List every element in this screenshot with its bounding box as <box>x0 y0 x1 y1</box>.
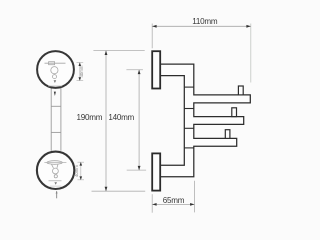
190mm dimension arrows <box>105 51 108 55</box>
post joint line 4 <box>184 147 194 149</box>
post joint line 2 <box>184 108 194 110</box>
top rosette (side view) <box>152 51 160 88</box>
mini dimension beside top circle <box>77 63 84 81</box>
bottom rosette lower faint line <box>50 185 61 187</box>
110mm dimension line <box>152 25 250 27</box>
bottom rosette inner disc ellipse <box>47 161 62 165</box>
140mm dimension line <box>138 70 140 170</box>
top rosette inner small circle <box>53 75 57 79</box>
post joint line 1 <box>184 86 194 88</box>
pivot pin arrow in bar <box>54 92 56 96</box>
65mm left extension tick <box>151 194 153 213</box>
140mm dimension arrows <box>138 70 141 74</box>
svg-text:40mm: 40mm <box>79 65 84 77</box>
top rosette bottom tick arrow <box>54 80 57 83</box>
svg-text:140mm: 140mm <box>108 113 134 122</box>
svg-text:65mm: 65mm <box>163 196 185 205</box>
bottom rosette funnel neck <box>52 164 59 168</box>
bottom rosette inner small circle <box>54 175 57 178</box>
110mm dimension arrows <box>152 25 156 28</box>
bottom rosette circle (front view) <box>37 152 74 189</box>
below-circle pin mark <box>56 191 58 198</box>
bottom rosette disc center line <box>44 162 66 164</box>
top rosette base faint line <box>48 85 62 87</box>
post joint line 3 <box>184 127 194 129</box>
hook on arm 3 <box>225 130 230 139</box>
hook on arm 1 <box>238 86 243 95</box>
svg-text:190mm: 190mm <box>77 113 103 122</box>
bottom rosette base line <box>49 180 62 182</box>
110mm right extension line <box>250 24 252 83</box>
110mm left extension tick <box>151 24 153 49</box>
connecting bar between rosettes <box>51 88 61 151</box>
190mm top extension line <box>93 49 144 51</box>
top rosette inner pivot circle <box>51 67 58 74</box>
65mm dimension arrows <box>152 203 156 206</box>
140mm bottom extension line <box>127 169 146 171</box>
wall bracket arms and post outline <box>160 64 250 177</box>
mini dimension arrows (top circle) <box>79 62 82 66</box>
bottom rosette bottom tick arrow <box>54 182 57 185</box>
bottom rosette (side view) <box>152 153 160 190</box>
svg-text:40mm: 40mm <box>74 165 79 177</box>
top rosette inner arm cross-bar <box>45 62 66 65</box>
65mm dimension line <box>152 203 194 205</box>
bottom rosette inner pivot circle <box>53 168 59 174</box>
svg-text:110mm: 110mm <box>192 17 218 26</box>
hook on arm 2 <box>232 108 237 117</box>
mini dimension arrows (bottom circle) <box>80 162 83 166</box>
65mm right extension tick <box>194 181 196 213</box>
190mm dimension line <box>105 51 107 191</box>
mini dimension beside bottom circle <box>78 162 85 180</box>
top rosette circle (front view) <box>37 51 74 88</box>
190mm bottom extension line <box>92 190 146 192</box>
140mm top extension line <box>126 69 142 71</box>
